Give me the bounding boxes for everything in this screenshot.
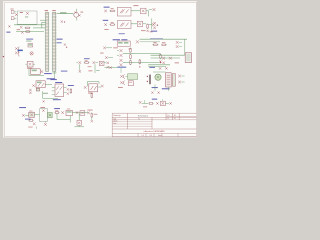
svg-text:1.1: 1.1 bbox=[167, 118, 169, 120]
svg-text:1/9: 1/9 bbox=[150, 135, 152, 137]
svg-text:1.0: 1.0 bbox=[142, 135, 144, 137]
svg-text:1/1: 1/1 bbox=[174, 115, 176, 117]
svg-text:1.0: 1.0 bbox=[167, 115, 169, 117]
svg-text:Schematic1: Schematic1 bbox=[138, 114, 149, 117]
svg-text:Cad: Cad bbox=[113, 119, 116, 121]
svg-text:Check: Check bbox=[113, 121, 118, 123]
svg-text:Drawn by:: Drawn by: bbox=[113, 114, 121, 117]
svg-text:1/1: 1/1 bbox=[174, 118, 176, 120]
svg-text:+dfmoto.ru DEVBOARD: +dfmoto.ru DEVBOARD bbox=[143, 130, 165, 133]
